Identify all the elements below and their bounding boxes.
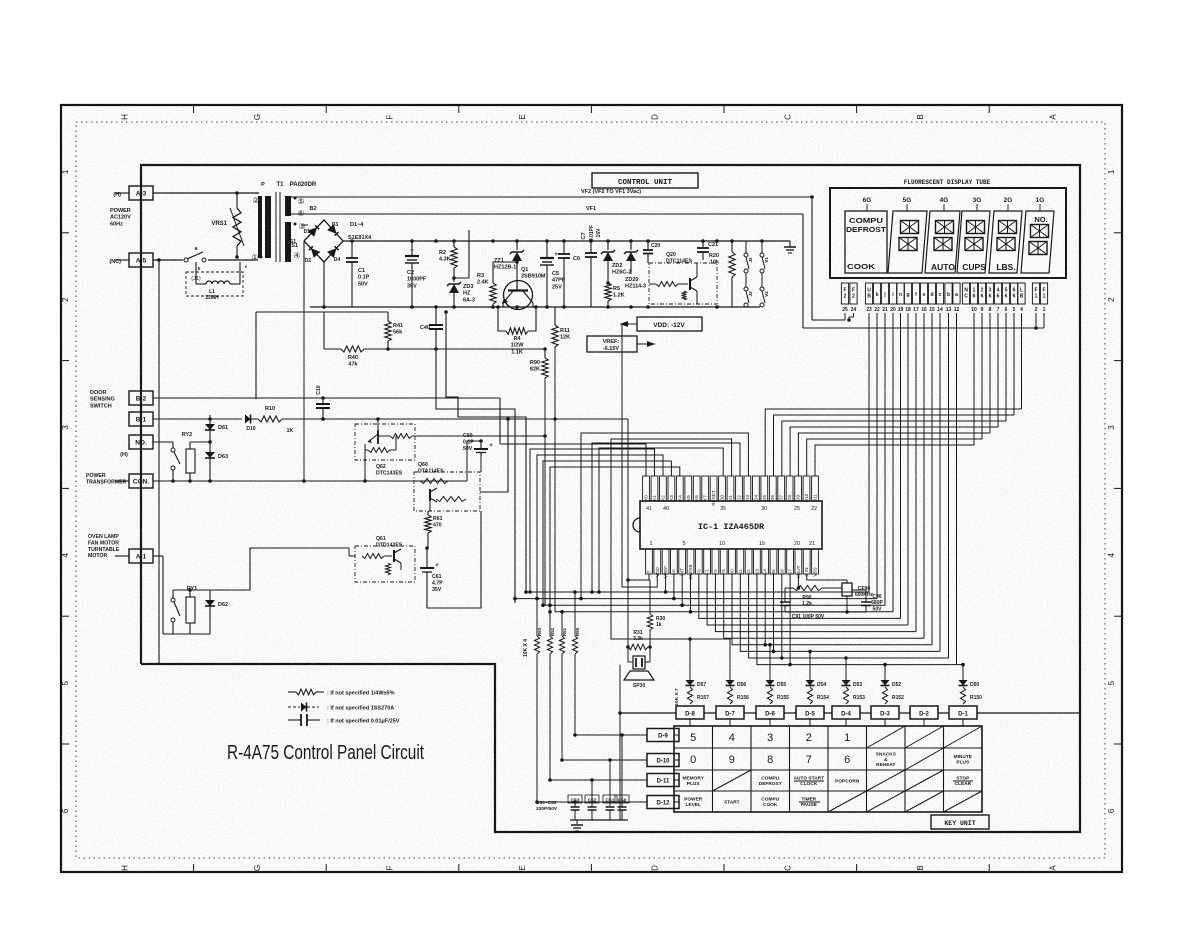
wire A-5 neutral bus down left side xyxy=(158,260,160,664)
resistor R3 2.4K xyxy=(477,241,519,307)
diode D62 xyxy=(190,590,250,634)
wire CW/SB pin line k3 xyxy=(555,574,893,614)
display COMPU DEFROST COOK cell xyxy=(845,211,887,273)
wire D3 line xyxy=(579,433,748,600)
frame column ticks xyxy=(61,105,1122,872)
wire B-1 line xyxy=(153,418,242,420)
wire CON line xyxy=(153,479,467,483)
key matrix diagonals for unused keys xyxy=(713,726,983,812)
transistor Q1 2SB910M xyxy=(502,267,546,310)
digital transistor Q62 DTC143ES xyxy=(355,419,415,481)
wire T pin to buzzer net xyxy=(649,574,650,580)
KEY UNIT label box xyxy=(931,815,989,829)
digital transistor Q61 DTD143ES xyxy=(250,536,415,590)
resistor R4 1/2W 1.1K bypass xyxy=(496,305,538,355)
capacitor C1 0.1u 50V xyxy=(346,241,370,307)
connector B-1 xyxy=(129,412,153,426)
key matrix row connector boxes D-9..D-12 xyxy=(647,729,679,809)
relay RY2 coil and contact xyxy=(153,432,212,483)
resistor R5 1.2K xyxy=(605,281,625,307)
wire oscillator ground xyxy=(785,600,866,614)
label OVEN LAMP FAN MOTOR TURNTABLE MOTOR xyxy=(88,534,120,559)
wire sub rail y=312 xyxy=(256,312,388,399)
resistor R30 1k xyxy=(647,580,665,647)
wire keypad left bus xyxy=(618,665,622,820)
capacitor C20 xyxy=(643,241,660,263)
relay RY1 coil and contact xyxy=(153,556,197,634)
key matrix key labels xyxy=(682,732,973,808)
wire F2 filament connections xyxy=(812,313,854,322)
capacitor C7 0.01uF 16V xyxy=(581,225,602,307)
jumper V1 xyxy=(760,241,769,273)
jumper V2 xyxy=(760,273,769,307)
diode D63 xyxy=(153,419,228,483)
label DOOR SENSING SWITCH xyxy=(90,390,115,409)
sheet border frame xyxy=(61,105,1122,872)
frame column letters xyxy=(120,114,1057,871)
wire F1 filament connections xyxy=(803,313,1044,330)
wire 0V rail xyxy=(304,241,760,309)
display digit cells with 14-seg glyphs xyxy=(888,211,1054,273)
resistor R10 1K xyxy=(258,406,628,434)
wire VREF pin line k0 xyxy=(524,574,869,594)
wire display grid lines down to upper fan xyxy=(974,313,1022,445)
connector CON. xyxy=(115,474,153,488)
VDD -12V callout xyxy=(620,317,702,331)
zener ZZ1 HZ12B-1 xyxy=(494,241,524,281)
connector A-5 xyxy=(109,253,153,267)
wire buzzer drive to relay bus xyxy=(626,419,650,647)
resistor R90 1.2k oscillator xyxy=(785,574,838,607)
diode D10 xyxy=(245,415,258,433)
capacitor C2 1000PF 35V xyxy=(405,241,427,307)
wire key-row pull-up resistor columns to K nets xyxy=(535,590,577,636)
resistor R11 12K xyxy=(552,307,570,612)
wire D0 strobe line xyxy=(597,448,723,594)
VREF -6.15V callout xyxy=(587,336,655,352)
interlock switch J1 with L1 22MH xyxy=(184,246,256,301)
key matrix D-8..D-1 strobe boxes xyxy=(620,706,1079,726)
legend resistor symbol xyxy=(288,689,395,696)
control unit boundary outline xyxy=(141,165,1080,832)
wire K1-K4 lines from IC to key matrix nets xyxy=(528,449,680,614)
digital transistor Q60 DTA114ES xyxy=(414,462,480,511)
wire Q62 output line xyxy=(376,417,547,438)
wire R2/ZD3 to R41 node xyxy=(454,230,469,278)
varistor VRS1 xyxy=(211,193,244,259)
frame row numbers xyxy=(61,169,1116,813)
wire B-2 line xyxy=(153,396,500,444)
title R-4A75 Control Panel Circuit xyxy=(227,741,424,764)
ceramic resonator CF90 600KHz xyxy=(807,574,874,600)
label POWER TRANSFORMER xyxy=(86,473,127,485)
resistor R31 3.3k xyxy=(626,630,652,650)
capacitor C61 4.7u 35V xyxy=(420,546,443,593)
diode D61 xyxy=(205,415,228,452)
IC U1 IC-1 IZA465DR body xyxy=(633,501,822,549)
capacitor C90 680P 50V xyxy=(852,590,883,612)
wire +rail from bridge xyxy=(343,239,790,243)
wire A-3 to transformer primary xyxy=(153,191,259,195)
piezo speaker SP30 xyxy=(624,647,654,689)
wire VP pin line k1 xyxy=(513,574,877,600)
display grid labels 6G-1G xyxy=(863,197,1045,211)
IC U1 top pin row with labels xyxy=(643,476,819,512)
wire VF2 filament line xyxy=(291,189,814,320)
legend capacitor symbol xyxy=(288,714,400,726)
resistor R61 470 xyxy=(425,511,443,548)
resistor R2 4.3K xyxy=(439,241,457,278)
jumper J2 xyxy=(744,241,753,273)
capacitor C5 47uF 25V xyxy=(540,241,566,307)
bridge rectifier D1-D4 S1E91X4 xyxy=(290,220,372,264)
wire relay drive nets xyxy=(153,307,510,608)
connector A-1 xyxy=(115,549,153,563)
capacitors C50-C53 330P/50V xyxy=(536,733,629,831)
wire D-6..D-3 column taps on fan lines xyxy=(768,643,887,672)
connector B-2 door sensing xyxy=(129,391,153,405)
wire A-5 to interlock switch xyxy=(153,258,183,262)
wire staircase to VDD area xyxy=(436,310,526,603)
resistor R20 10k xyxy=(709,241,735,307)
capacitor C60 0.1u 50V xyxy=(463,433,493,456)
ground top rail xyxy=(784,241,796,253)
resistor R90 82K xyxy=(436,347,548,605)
wire display segment lines down to lower fan xyxy=(869,313,957,665)
capacitor C10 xyxy=(316,385,330,421)
wire key row lines to D-9..D-12 xyxy=(535,654,647,804)
capacitor C91 100P 50V xyxy=(780,588,825,620)
wire D1 strobe line to key columns D-8 D-7 xyxy=(611,439,732,672)
wire D-1 column tap xyxy=(957,663,965,672)
display tube pin row xyxy=(841,283,1047,313)
wire lower fan horizontals xyxy=(699,574,957,666)
connector A-3 xyxy=(113,186,153,200)
wire D2 line xyxy=(590,443,740,594)
IC U1 bottom pin row with labels xyxy=(646,541,819,580)
connector NO. xyxy=(120,435,153,458)
wire K0 line from door sense B-2 xyxy=(500,444,646,476)
digital transistor Q20 DTC114ES xyxy=(649,252,717,304)
wire VF1 filament line xyxy=(291,206,803,328)
transformer T1 PA0200R xyxy=(251,182,317,262)
capacitor C6 xyxy=(558,241,580,307)
wire upper fan IC D5-D11 to display grid lines xyxy=(765,409,1021,476)
CONTROL UNIT label box xyxy=(592,173,698,188)
resistors R50-R53 10K X 4 xyxy=(523,627,580,657)
zener ZD3 HZ 6A-3 xyxy=(447,276,475,307)
wire VDD pin to VDD callout xyxy=(622,324,657,587)
legend diode symbol xyxy=(288,703,394,712)
resistor R41 56k xyxy=(385,312,403,349)
zener ZD2 HZ6C-2 xyxy=(601,241,631,283)
label POWER AC120V 60Hz xyxy=(110,208,131,227)
capacitor C21 xyxy=(697,241,718,260)
key matrix diodes D50-D57 with resistors R150-R157 xyxy=(674,672,982,706)
key matrix grid xyxy=(674,726,982,812)
resistor R40 47k xyxy=(324,312,436,368)
jumper J3 xyxy=(744,273,753,307)
fluorescent display tube outer box xyxy=(830,179,1066,278)
wire INT pin line k2 xyxy=(545,574,885,607)
zener ZD20 HZ114-3 xyxy=(624,241,646,290)
capacitor C40 xyxy=(420,307,443,351)
scan noise texture xyxy=(0,0,1,1)
